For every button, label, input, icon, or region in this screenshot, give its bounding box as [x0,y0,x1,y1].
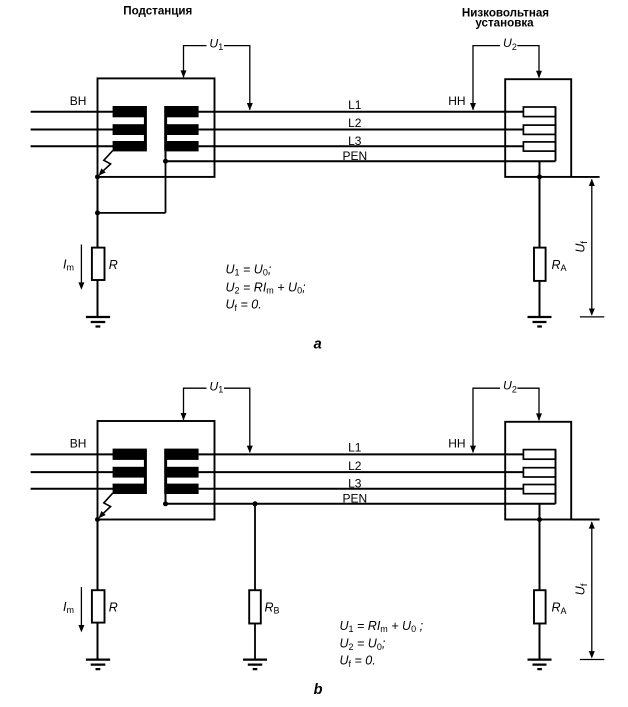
svg-text:U1 = U0;: U1 = U0; [226,262,272,277]
svg-text:RB: RB [265,600,280,615]
svg-text:U1 = RIm + U0 ;: U1 = RIm + U0 ; [340,619,424,634]
svg-text:U2 = RIm + U0;: U2 = RIm + U0; [226,280,307,295]
svg-text:Uf = 0.: Uf = 0. [226,297,262,312]
svg-text:Uf = 0.: Uf = 0. [340,654,376,669]
svg-text:U2 = U0;: U2 = U0; [340,637,386,652]
svg-text:Подстанция: Подстанция [123,5,192,18]
svg-text:b: b [314,682,323,698]
svg-text:a: a [314,337,322,353]
svg-text:установка: установка [475,16,534,29]
